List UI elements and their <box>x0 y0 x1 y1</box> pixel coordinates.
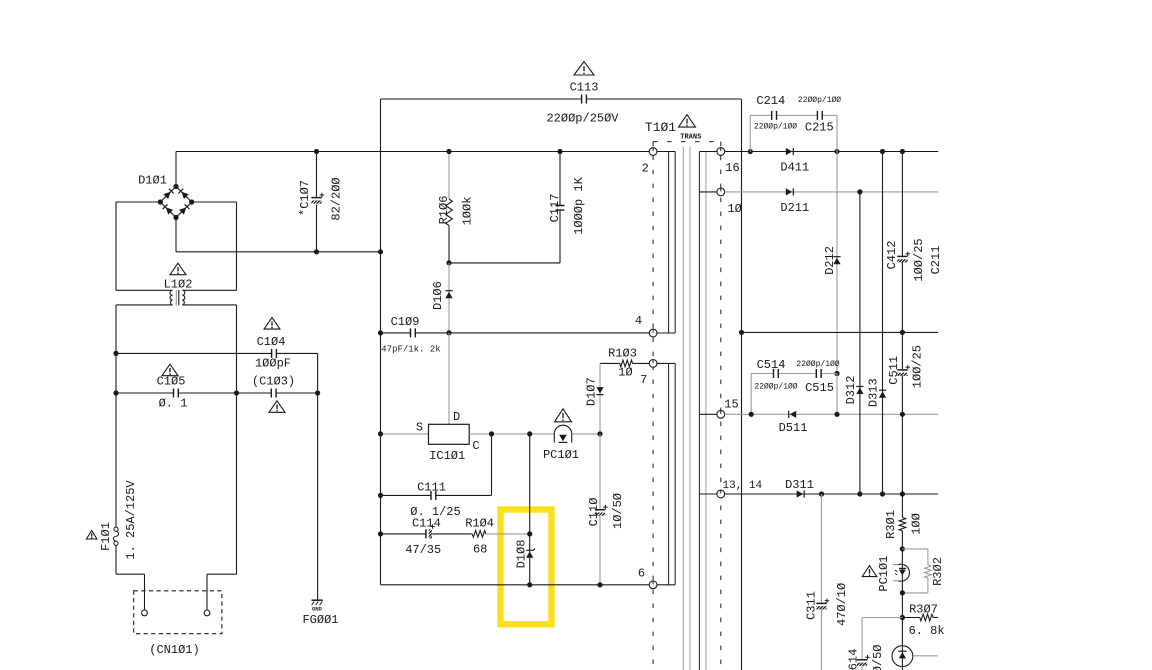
diode D211 <box>786 188 794 195</box>
wire T101 pin15 stub <box>699 413 717 415</box>
warning triangle F101 <box>86 531 97 540</box>
wire right AC line <box>236 305 238 574</box>
capacitor C111 <box>431 491 436 500</box>
T101 primary winding bars <box>669 152 676 585</box>
wire C104 net y=353.4 <box>116 352 318 354</box>
svg-text:*C1Ø7: *C1Ø7 <box>298 180 312 216</box>
junction <box>834 149 839 154</box>
svg-text:16: 16 <box>725 161 739 175</box>
diode D101 NW (left to top) <box>163 189 173 199</box>
wire R301 bottom lead <box>901 531 903 549</box>
svg-text:C214: C214 <box>756 94 785 108</box>
wire primary HV bus y=151.5 <box>176 151 649 153</box>
capacitor C113 <box>582 95 587 104</box>
diode D101 NE (right to top) <box>178 189 188 199</box>
wire T101 pin13-14 stub <box>699 493 717 495</box>
svg-text:C614: C614 <box>847 649 861 670</box>
junction <box>857 491 862 496</box>
wire 10V rail y=191.9 <box>725 191 939 193</box>
junction <box>314 149 319 154</box>
svg-text:D1Ø7: D1Ø7 <box>585 377 599 406</box>
wire T101 pin7 stub <box>657 362 675 364</box>
svg-text:T1Ø1: T1Ø1 <box>645 120 676 135</box>
wire D107 leads <box>599 363 601 434</box>
junction <box>489 431 494 436</box>
wire T101 pin10 stub <box>699 191 717 193</box>
wire DC return to rail <box>176 218 381 252</box>
svg-text:D311: D311 <box>785 478 814 492</box>
junction <box>234 390 239 395</box>
junction <box>900 412 905 417</box>
svg-text:C113: C113 <box>570 81 599 95</box>
svg-text:C111: C111 <box>417 481 446 495</box>
T101 pin 13,14 <box>717 490 725 498</box>
highlight box around D108 <box>501 510 552 625</box>
svg-text:R1Ø6: R1Ø6 <box>437 196 451 225</box>
wire R302 bottom leg <box>902 578 928 593</box>
wire opto/zener column <box>901 549 903 646</box>
wire T101 pin6 stub <box>657 584 675 586</box>
capacitor C105 <box>174 389 179 398</box>
capacitor C511 <box>897 365 910 376</box>
capacitor C114 <box>426 524 435 538</box>
junction <box>748 149 753 154</box>
diode D313 <box>879 390 886 398</box>
wire D101 left AC lead <box>116 202 160 290</box>
T101 pin 2 <box>649 148 657 156</box>
svg-text:1Ø: 1Ø <box>618 366 632 380</box>
wire 15 rail y=414.3 <box>725 413 939 415</box>
junction <box>314 249 319 254</box>
wire to CN101 pin left <box>116 574 145 610</box>
svg-text:1ØØ: 1ØØ <box>910 513 924 535</box>
junction <box>819 491 824 496</box>
warning triangle T101 <box>679 115 696 128</box>
wire R103 left lead <box>600 362 620 364</box>
svg-text:22ØØp/1ØØ: 22ØØp/1ØØ <box>754 382 797 391</box>
diode D101 SE (bottom to right) <box>179 204 189 214</box>
diode D311 <box>797 490 805 497</box>
svg-text:1ØØ/25: 1ØØ/25 <box>912 238 926 281</box>
svg-text:22ØØp/1ØØ: 22ØØp/1ØØ <box>754 122 797 131</box>
svg-text:FGØØ1: FGØØ1 <box>302 613 338 627</box>
warning triangle C113 <box>574 62 594 76</box>
svg-text:D: D <box>453 410 460 424</box>
svg-text:R3Ø2: R3Ø2 <box>931 557 945 586</box>
diode D411 <box>786 148 794 155</box>
svg-text:(CN1Ø1): (CN1Ø1) <box>149 643 199 657</box>
wire C412/C511 column <box>901 152 903 495</box>
diode D312 <box>856 387 863 395</box>
warning triangle C105 <box>162 364 178 376</box>
wire C614 leads <box>861 618 863 670</box>
junction <box>900 590 905 595</box>
svg-text:22ØØp/1ØØ: 22ØØp/1ØØ <box>796 360 839 369</box>
capacitor C109 <box>411 328 416 337</box>
svg-text:13, 14: 13, 14 <box>723 480 763 492</box>
wire PC101 to D107 node <box>572 433 600 435</box>
svg-text:C117: C117 <box>548 194 562 223</box>
svg-text:2: 2 <box>642 162 649 176</box>
svg-text:82/2ØØ: 82/2ØØ <box>330 177 344 220</box>
svg-text:15: 15 <box>724 398 738 412</box>
wire primary ground rail x=380.5 <box>380 99 382 585</box>
svg-text:C11Ø: C11Ø <box>587 498 601 527</box>
capacitor C110 <box>595 505 608 516</box>
svg-text:1ØØ/25: 1ØØ/25 <box>910 345 924 388</box>
diode D511 <box>789 411 797 418</box>
junction <box>446 149 451 154</box>
wire C114 net left <box>381 533 473 535</box>
junction <box>880 149 885 154</box>
wire C110 leads <box>599 434 601 585</box>
junction <box>446 330 451 335</box>
svg-text:IC1Ø1: IC1Ø1 <box>429 449 465 463</box>
wire IC101 S lead <box>381 433 429 435</box>
capacitor C311 <box>816 599 829 610</box>
wire C117 leads <box>559 152 561 263</box>
regulator IC101 <box>429 424 470 444</box>
wire C111 net <box>381 434 492 496</box>
svg-text:1ØØpF: 1ØØpF <box>255 357 291 371</box>
svg-text:R1Ø4: R1Ø4 <box>465 517 494 531</box>
svg-text:L1Ø2: L1Ø2 <box>164 278 193 292</box>
svg-text:GND: GND <box>312 605 323 612</box>
svg-text:C211: C211 <box>929 246 943 275</box>
svg-text:TRANS: TRANS <box>680 134 701 142</box>
capacitor C515 <box>816 369 821 378</box>
warning triangle C104 <box>264 318 280 330</box>
T101 secondary winding bars <box>698 152 700 670</box>
warning triangle L102 <box>170 263 186 275</box>
svg-text:D1Ø6: D1Ø6 <box>431 281 445 310</box>
capacitor C214 <box>772 111 777 120</box>
svg-text:D212: D212 <box>823 246 837 275</box>
T101 core lines <box>683 147 690 670</box>
wire C614 branch <box>862 617 902 619</box>
wire C311 leads <box>821 494 823 670</box>
wire C105/C103 net y=393 <box>116 392 318 394</box>
wire D313 column <box>882 152 884 495</box>
svg-text:D312: D312 <box>844 376 858 405</box>
svg-text:1ØØk: 1ØØk <box>461 197 475 226</box>
resistor R103 <box>620 360 633 367</box>
wire 16V rail y=151.5 <box>725 151 939 153</box>
wire left AC line lower <box>115 545 117 574</box>
wire C107 leads <box>316 152 318 252</box>
svg-text:4: 4 <box>635 314 642 328</box>
wire R302 top leg <box>902 549 928 565</box>
wire to CN101 pin right <box>207 574 237 610</box>
svg-text:C515: C515 <box>805 381 834 395</box>
junction <box>900 330 905 335</box>
T101 pin 10 <box>717 188 725 196</box>
wire IC101 C lead <box>469 433 554 435</box>
T101 pin 15 <box>717 410 725 418</box>
svg-text:22ØØp/1ØØ: 22ØØp/1ØØ <box>798 96 841 105</box>
junction <box>880 491 885 496</box>
resistor R307 <box>920 614 933 621</box>
svg-text:68: 68 <box>473 543 487 557</box>
wire mid rail y=332.4 <box>742 331 939 333</box>
svg-text:S: S <box>416 421 423 435</box>
svg-text:PC1Ø1: PC1Ø1 <box>543 448 579 462</box>
junction <box>113 351 118 356</box>
wire D312 column <box>859 192 861 494</box>
svg-text:C514: C514 <box>757 358 786 372</box>
svg-text:6. 8k: 6. 8k <box>909 624 945 638</box>
junction <box>834 371 839 376</box>
capacitor C104 <box>272 349 277 358</box>
capacitor C412 <box>897 252 910 263</box>
node D101 top <box>173 184 178 189</box>
T101 pin 4 <box>649 329 657 337</box>
svg-text:22ØØp/25ØV: 22ØØp/25ØV <box>546 112 619 126</box>
resistor R302 <box>925 565 932 578</box>
resistor R301 <box>899 518 906 531</box>
wire D212 to pin15 rail <box>836 374 838 415</box>
capacitor C215 <box>817 111 822 120</box>
wire D108 column <box>529 434 531 585</box>
svg-text:D313: D313 <box>867 378 881 407</box>
resistor R106 <box>446 199 453 226</box>
junction <box>315 390 320 395</box>
wire R104 to D108 <box>486 533 530 535</box>
svg-text:Ø. 1: Ø. 1 <box>159 397 188 411</box>
wire T101 pin2 stub <box>657 151 675 153</box>
wire D101 top lead <box>175 152 177 187</box>
capacitor C614 <box>857 655 870 666</box>
svg-text:R3Ø7: R3Ø7 <box>909 603 938 617</box>
wire zener right lead <box>913 655 938 657</box>
wire R103 right lead <box>633 362 650 364</box>
fuse F101 <box>113 527 118 545</box>
wire D106 leads <box>448 263 450 333</box>
wire R307 right lead <box>933 617 938 619</box>
wire C514/C515 loop <box>751 374 837 415</box>
svg-text:D411: D411 <box>780 161 809 175</box>
junction <box>378 249 383 254</box>
capacitor C514 <box>774 369 779 378</box>
junction <box>749 412 754 417</box>
T101 pin 6 <box>649 581 657 589</box>
junction <box>857 189 862 194</box>
svg-text:1ØØØp 1K: 1ØØØp 1K <box>572 176 586 234</box>
junction <box>378 531 383 536</box>
wire C109 net y=333 <box>381 332 650 334</box>
svg-text:C412: C412 <box>885 241 899 270</box>
svg-text:R3Ø1: R3Ø1 <box>884 510 898 539</box>
svg-text:6: 6 <box>638 567 645 581</box>
junction <box>527 531 532 536</box>
connector CN101 pin circles <box>142 610 148 616</box>
diode D101 SW (bottom to left) <box>163 204 173 214</box>
svg-text:47pF/1k. 2k: 47pF/1k. 2k <box>381 345 440 355</box>
svg-text:D511: D511 <box>779 421 808 435</box>
bridge rectifier D101 <box>160 187 191 218</box>
capacitor C117 <box>556 206 565 211</box>
junction <box>900 149 905 154</box>
connector CN101 dashed outline <box>134 591 222 634</box>
node D101 right <box>189 199 194 204</box>
wire primary bottom net y=584.8 <box>381 584 650 586</box>
svg-text:C311: C311 <box>804 591 818 620</box>
wire T101 pin16 stub <box>699 151 717 153</box>
transformer T101 dashed boundary <box>653 142 721 670</box>
svg-text:C1Ø5: C1Ø5 <box>157 375 186 389</box>
junction <box>597 582 602 587</box>
wire C214/C215 loop <box>750 115 837 151</box>
wire R301 top lead <box>901 494 903 518</box>
wire C113 top net <box>381 98 742 100</box>
junction <box>113 390 118 395</box>
junction <box>527 582 532 587</box>
ground FG001 <box>312 600 323 605</box>
wire left AC line upper <box>115 305 117 527</box>
svg-text:1Ø/5Ø: 1Ø/5Ø <box>611 493 625 529</box>
warning triangle C103 <box>269 401 285 413</box>
capacitor C103 <box>271 389 276 398</box>
junction <box>378 330 383 335</box>
wire to chassis ground FG001 <box>317 353 319 599</box>
inductor L102 common-mode choke <box>116 290 237 306</box>
zener diode D301 <box>892 646 913 667</box>
svg-text:(C1Ø3): (C1Ø3) <box>252 375 295 389</box>
svg-text:PC1Ø1: PC1Ø1 <box>877 556 891 592</box>
warning triangle PC101 <box>555 409 572 422</box>
diode D107 <box>596 387 603 395</box>
wire 13-14 rail y=494 <box>725 493 939 495</box>
svg-text:1. 25A/125V: 1. 25A/125V <box>124 480 138 560</box>
junction <box>446 260 451 265</box>
T101 pin 16 <box>717 148 725 156</box>
svg-text:R1Ø3: R1Ø3 <box>608 347 637 361</box>
wire zener bottom lead <box>901 667 903 670</box>
junction <box>900 491 905 496</box>
svg-text:C215: C215 <box>805 121 834 135</box>
svg-text:D1Ø1: D1Ø1 <box>138 174 167 188</box>
svg-text:C1Ø4: C1Ø4 <box>257 335 286 349</box>
wire C113 return line x=741.5 <box>741 99 743 670</box>
opto-coupler PC101 transistor side <box>893 564 910 581</box>
junction <box>834 412 839 417</box>
junction <box>557 149 562 154</box>
wire IC101 D-pin lead <box>448 333 450 424</box>
wire R106-C117 bottom net <box>449 262 560 264</box>
svg-text:D1Ø8: D1Ø8 <box>515 540 529 569</box>
svg-text:C: C <box>472 439 479 453</box>
wire R307 left lead <box>902 617 919 619</box>
svg-text:7: 7 <box>640 373 647 387</box>
svg-text:D211: D211 <box>780 201 809 215</box>
wire R106 top lead <box>448 152 450 200</box>
junction <box>739 330 744 335</box>
node D101 left <box>158 199 163 204</box>
svg-text:1Ø/5Ø: 1Ø/5Ø <box>871 644 885 670</box>
svg-text:C1Ø9: C1Ø9 <box>391 315 420 329</box>
opto-coupler PC101 LED side <box>554 425 571 442</box>
junction <box>378 493 383 498</box>
svg-text:C114: C114 <box>412 517 441 531</box>
junction <box>900 615 905 620</box>
resistor R104 <box>472 531 486 538</box>
warning triangle PC101 secondary <box>862 566 877 577</box>
junction <box>597 431 602 436</box>
junction <box>378 431 383 436</box>
svg-text:47Ø/1Ø: 47Ø/1Ø <box>835 583 849 626</box>
wire D212 column <box>836 152 838 374</box>
junction <box>527 431 532 436</box>
capacitor *C107 <box>311 193 324 204</box>
node D101 bottom <box>173 215 178 220</box>
diode D108 <box>526 549 535 558</box>
svg-text:C511: C511 <box>887 356 901 385</box>
wire R106 bottom lead <box>448 226 450 263</box>
wire T101 pin4 stub <box>657 332 675 334</box>
T101 pin 7 <box>649 360 657 368</box>
svg-text:1Ø: 1Ø <box>727 202 741 216</box>
diode D212 <box>833 257 840 265</box>
svg-text:F1Ø1: F1Ø1 <box>99 522 113 551</box>
svg-text:47/35: 47/35 <box>405 543 441 557</box>
wire D101 right AC lead <box>192 202 237 290</box>
diode D106 <box>445 291 452 299</box>
junction <box>900 546 905 551</box>
